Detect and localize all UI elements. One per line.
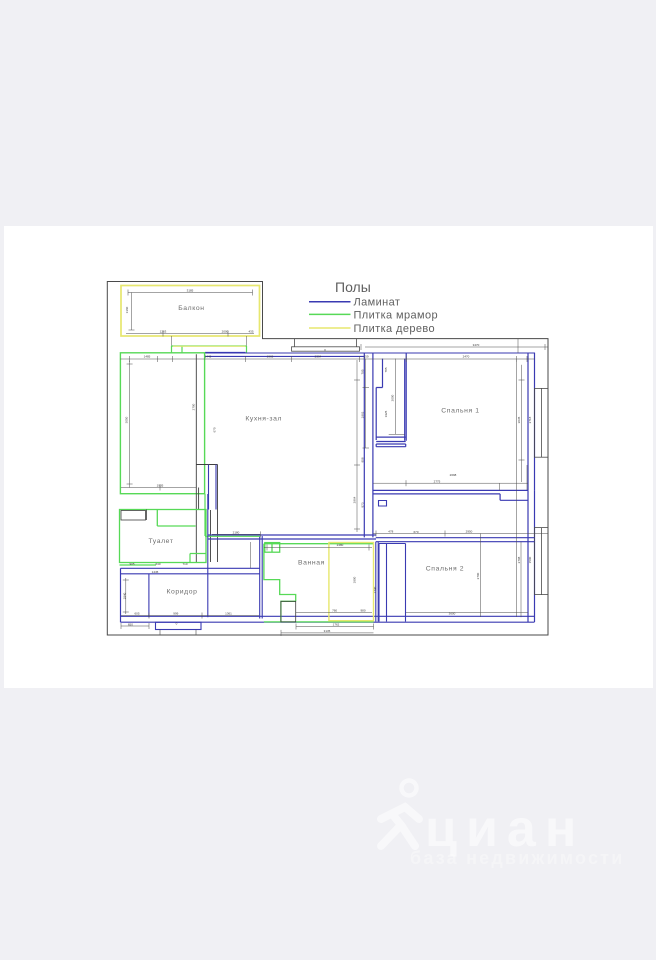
- svg-text:3050: 3050: [125, 416, 129, 423]
- svg-text:2700: 2700: [192, 403, 196, 410]
- svg-text:908: 908: [361, 457, 365, 462]
- bathroom green: [264, 543, 374, 622]
- toilet green outline: [120, 510, 207, 566]
- svg-text:478: 478: [388, 530, 393, 534]
- bottom wall whole: [121, 616, 535, 622]
- svg-text:1361: 1361: [225, 612, 232, 616]
- svg-text:785: 785: [384, 367, 388, 372]
- svg-text:Плитка дерево: Плитка дерево: [354, 323, 436, 335]
- tiny dimension texts: [128, 289, 480, 634]
- corridor/vestibule wall: [207, 494, 209, 617]
- room labels: [148, 305, 479, 596]
- entry porch bump top: [292, 339, 360, 352]
- corridor top wall: [121, 568, 260, 574]
- kitchen bottom wall: [208, 535, 376, 539]
- bedroom1 wardrobe shaft: [376, 353, 406, 447]
- svg-text:650: 650: [128, 622, 133, 626]
- shaft dims: [363, 359, 405, 448]
- svg-text:3185: 3185: [187, 289, 194, 293]
- svg-text:435: 435: [248, 330, 253, 334]
- svg-text:1925: 1925: [384, 410, 388, 417]
- svg-text:1445: 1445: [152, 570, 159, 574]
- corridor inner vertical: [148, 574, 150, 617]
- svg-text:999: 999: [173, 612, 178, 616]
- left wall lower (blue): [120, 568, 122, 622]
- kitchen green zone extension to bottom wall: [205, 494, 260, 537]
- svg-text:3600: 3600: [449, 611, 456, 615]
- bed2 window: [535, 528, 549, 595]
- central wall (blue double): [364, 353, 373, 538]
- svg-text:1800: 1800: [353, 576, 357, 583]
- interior wall kitchen/toilet (dark): [196, 354, 198, 562]
- legend: [309, 279, 438, 335]
- balcony yellow outline: [121, 286, 260, 337]
- svg-text:Полы: Полы: [335, 279, 371, 295]
- bathroom washing machine: [281, 601, 296, 622]
- drawing frame: [107, 282, 548, 636]
- svg-text:760: 760: [332, 609, 337, 613]
- svg-text:710: 710: [182, 562, 187, 566]
- dims misc: [120, 339, 548, 636]
- svg-text:1500: 1500: [528, 556, 532, 563]
- bed2 right wall: [528, 490, 535, 622]
- svg-text:3035: 3035: [517, 416, 521, 423]
- watermark logo: [375, 775, 435, 855]
- svg-text:Коридор: Коридор: [166, 589, 197, 596]
- svg-text:980: 980: [360, 609, 365, 613]
- svg-text:1905: 1905: [157, 484, 164, 488]
- svg-text:2480: 2480: [337, 543, 344, 547]
- svg-text:Спальня 1: Спальня 1: [441, 408, 479, 415]
- bathroom right wall: [376, 542, 378, 622]
- svg-text:1762: 1762: [333, 623, 340, 627]
- svg-text:2950: 2950: [466, 530, 473, 534]
- svg-text:Туалет: Туалет: [148, 538, 173, 545]
- bed2 top wall: [376, 538, 535, 542]
- svg-text:3135: 3135: [324, 629, 331, 633]
- svg-text:640: 640: [155, 562, 160, 566]
- svg-text:873: 873: [361, 502, 365, 507]
- svg-text:670: 670: [413, 530, 418, 534]
- svg-text:905: 905: [129, 562, 134, 566]
- svg-text:2700: 2700: [476, 572, 480, 579]
- svg-text:1263: 1263: [160, 330, 167, 334]
- kitchen vent shaft bottom-right: [196, 465, 217, 563]
- svg-text:1963: 1963: [361, 411, 365, 418]
- svg-text:2000: 2000: [222, 330, 229, 334]
- bed2 closet: [379, 544, 406, 622]
- svg-text:605: 605: [134, 612, 139, 616]
- toilet bottom-right notch: [190, 554, 206, 563]
- svg-text:Балкон: Балкон: [178, 305, 204, 312]
- svg-text:Ламинат: Ламинат: [354, 297, 401, 309]
- svg-text:670: 670: [213, 427, 217, 432]
- svg-text:1965: 1965: [267, 355, 274, 359]
- svg-text:2708: 2708: [517, 556, 521, 563]
- svg-text:1360: 1360: [125, 306, 129, 313]
- kitchen green zone: [120, 353, 204, 494]
- svg-text:2698: 2698: [450, 473, 457, 477]
- svg-text:Плитка мрамор: Плитка мрамор: [354, 310, 439, 322]
- svg-text:1445: 1445: [205, 355, 212, 359]
- bedroom1 window: [535, 388, 549, 457]
- bed1 bottom wall: [373, 490, 528, 500]
- svg-text:1485: 1485: [144, 355, 151, 359]
- svg-text:2718: 2718: [528, 416, 532, 423]
- balcony door (green+blue): [172, 346, 247, 353]
- svg-text:3470: 3470: [473, 343, 480, 347]
- svg-text:Ванная: Ванная: [298, 560, 325, 567]
- svg-text:2470: 2470: [463, 355, 470, 359]
- bathroom left wall: [260, 536, 263, 619]
- svg-text:2334: 2334: [315, 355, 322, 359]
- svg-text:2964: 2964: [353, 496, 357, 503]
- svg-text:2775: 2775: [434, 479, 441, 483]
- svg-text:2180: 2180: [233, 530, 240, 534]
- svg-text:159: 159: [363, 355, 368, 359]
- kitchen interior dims: [121, 361, 196, 491]
- svg-text:795: 795: [361, 369, 365, 374]
- svg-text:2000: 2000: [391, 394, 395, 401]
- entrance door bump: [156, 622, 202, 629]
- top wall (blue double): [205, 353, 535, 356]
- bathroom yellow zone: [329, 543, 374, 621]
- toilet sink: [121, 511, 146, 521]
- svg-text:Кухня-зал: Кухня-зал: [245, 416, 282, 423]
- bedroom1 right wall: [528, 353, 535, 491]
- svg-text:1740: 1740: [373, 586, 377, 593]
- svg-text:1840: 1840: [123, 592, 127, 599]
- svg-text:Спальня 2: Спальня 2: [426, 565, 464, 572]
- balcony dim lines: [126, 290, 254, 347]
